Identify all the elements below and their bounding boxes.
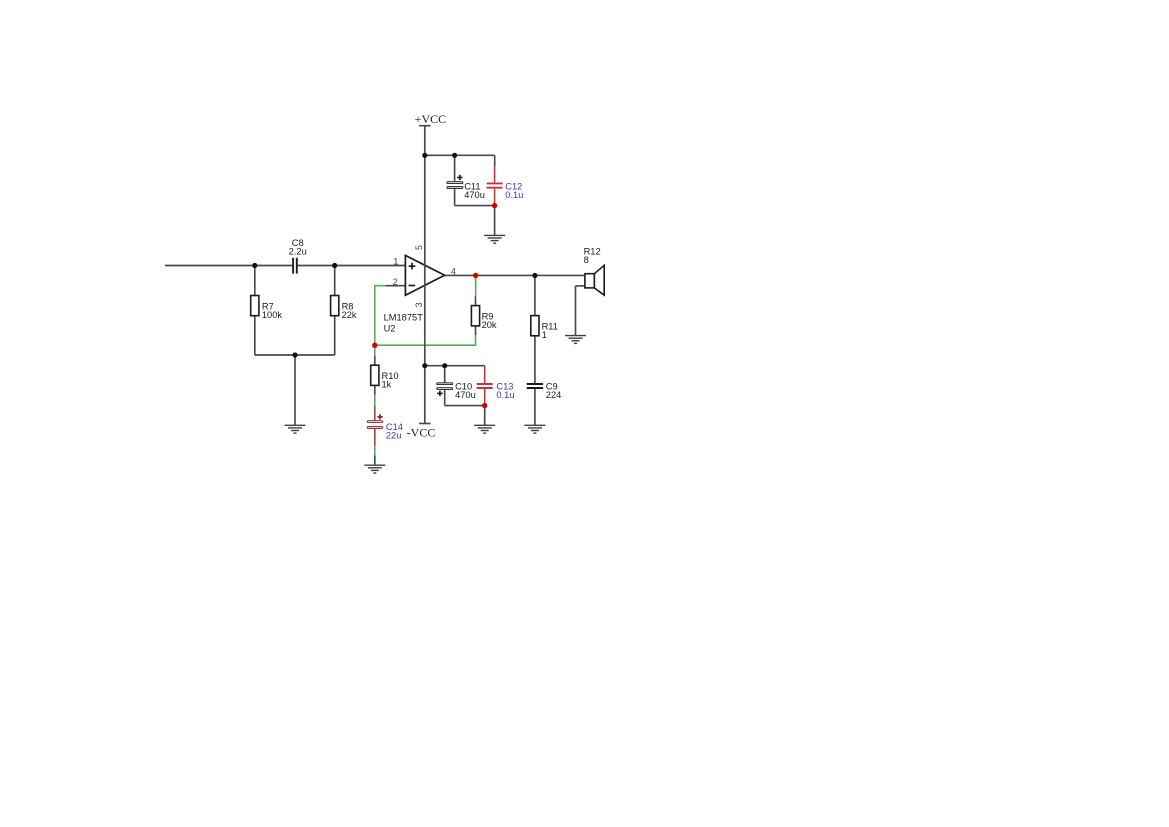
svg-text:3: 3 bbox=[414, 302, 424, 307]
svg-text:4: 4 bbox=[451, 267, 456, 277]
svg-text:470u: 470u bbox=[464, 190, 485, 200]
svg-text:0.1u: 0.1u bbox=[496, 390, 514, 400]
svg-text:2: 2 bbox=[393, 277, 398, 287]
svg-text:470u: 470u bbox=[455, 390, 476, 400]
svg-text:U2: U2 bbox=[384, 324, 396, 334]
svg-text:-VCC: -VCC bbox=[407, 426, 436, 440]
svg-text:22k: 22k bbox=[342, 310, 357, 320]
svg-text:224: 224 bbox=[546, 390, 562, 400]
svg-text:1: 1 bbox=[393, 257, 398, 267]
svg-text:1k: 1k bbox=[382, 380, 392, 390]
svg-text:0.1u: 0.1u bbox=[505, 190, 523, 200]
svg-text:2.2u: 2.2u bbox=[289, 247, 307, 257]
svg-text:22u: 22u bbox=[386, 431, 402, 441]
svg-text:1: 1 bbox=[542, 330, 547, 340]
svg-text:LM1875T: LM1875T bbox=[384, 313, 424, 323]
svg-text:+VCC: +VCC bbox=[415, 112, 446, 126]
svg-text:5: 5 bbox=[414, 245, 424, 250]
svg-text:100k: 100k bbox=[262, 310, 283, 320]
svg-text:8: 8 bbox=[584, 255, 589, 265]
svg-text:20k: 20k bbox=[482, 320, 497, 330]
